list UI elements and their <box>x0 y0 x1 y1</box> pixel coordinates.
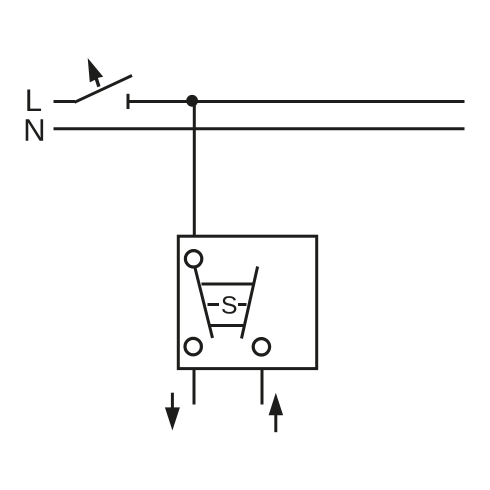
arrow down <box>165 393 180 431</box>
terminal bottom-left <box>185 338 201 354</box>
wire L bus <box>128 100 465 103</box>
net label N <box>26 119 43 140</box>
coupling bar upper <box>202 283 254 286</box>
wire L drop to switch unit <box>193 102 196 237</box>
arrow up <box>269 393 284 432</box>
actuation arrow <box>88 58 104 87</box>
wire output right <box>261 369 264 405</box>
terminal top-left <box>185 251 201 267</box>
label dash left <box>208 303 220 306</box>
switch S1 blade <box>75 76 133 103</box>
switch unit box <box>178 236 316 368</box>
net label L <box>27 90 41 111</box>
changeover contact right pole <box>242 267 258 339</box>
changeover contact left pole <box>195 268 213 338</box>
wire L stub <box>54 100 76 103</box>
terminal bottom-right <box>253 339 269 355</box>
junction dot on L <box>186 95 198 107</box>
wire output left <box>193 369 196 405</box>
switch S1 fixed contact tick <box>127 94 130 109</box>
label S <box>222 296 236 314</box>
wire N bus <box>54 127 465 130</box>
label dash right <box>238 303 247 306</box>
coupling bar lower <box>210 324 245 327</box>
